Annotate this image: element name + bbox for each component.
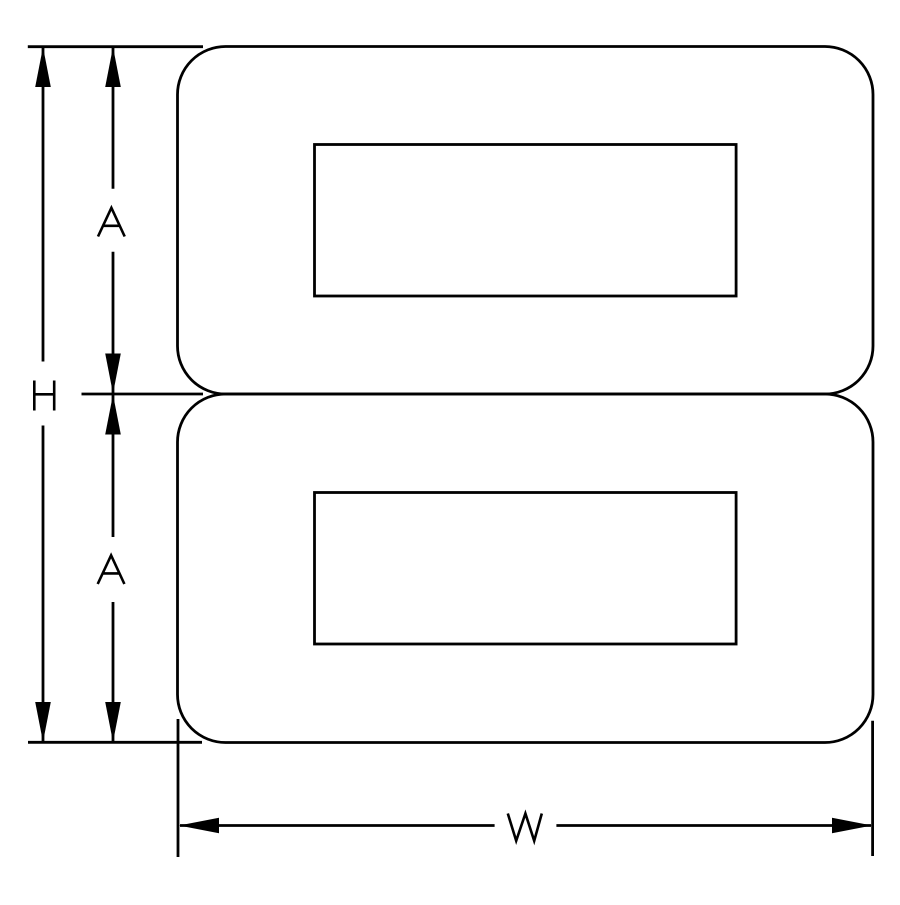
extension line bottom xyxy=(28,741,202,744)
dimension line W right segment xyxy=(556,824,871,827)
label A upper xyxy=(98,208,125,237)
dimension line A upper segment 1 xyxy=(112,48,115,189)
arrowhead H top xyxy=(35,47,51,87)
bottom gang rectangular opening xyxy=(315,493,737,645)
dimension line W left segment xyxy=(180,824,495,827)
top gang rectangular opening xyxy=(315,145,737,297)
dimension line A lower segment 2 xyxy=(112,602,115,741)
dimension line H upper segment xyxy=(42,48,45,362)
arrowhead A-upper top xyxy=(105,47,121,87)
dimension line H lower segment xyxy=(42,426,45,742)
arrowhead W right xyxy=(832,818,872,834)
label A lower xyxy=(98,555,125,584)
extension line W right xyxy=(871,721,874,856)
extension line W left xyxy=(177,719,180,857)
arrowhead W left xyxy=(179,818,219,834)
extension line middle xyxy=(82,393,204,396)
arrowhead A-lower top xyxy=(105,395,121,435)
arrowhead A-upper bottom xyxy=(105,354,121,394)
arrowhead H bottom xyxy=(35,702,51,742)
faceplate top gang outline xyxy=(178,47,874,395)
arrowhead A-lower bottom xyxy=(105,702,121,742)
label W xyxy=(508,814,542,841)
dimension line A upper segment 2 xyxy=(112,252,115,393)
label H xyxy=(34,381,54,411)
faceplate bottom gang outline xyxy=(178,394,874,743)
extension line top xyxy=(28,45,203,48)
dimension line A lower segment 1 xyxy=(112,395,115,537)
